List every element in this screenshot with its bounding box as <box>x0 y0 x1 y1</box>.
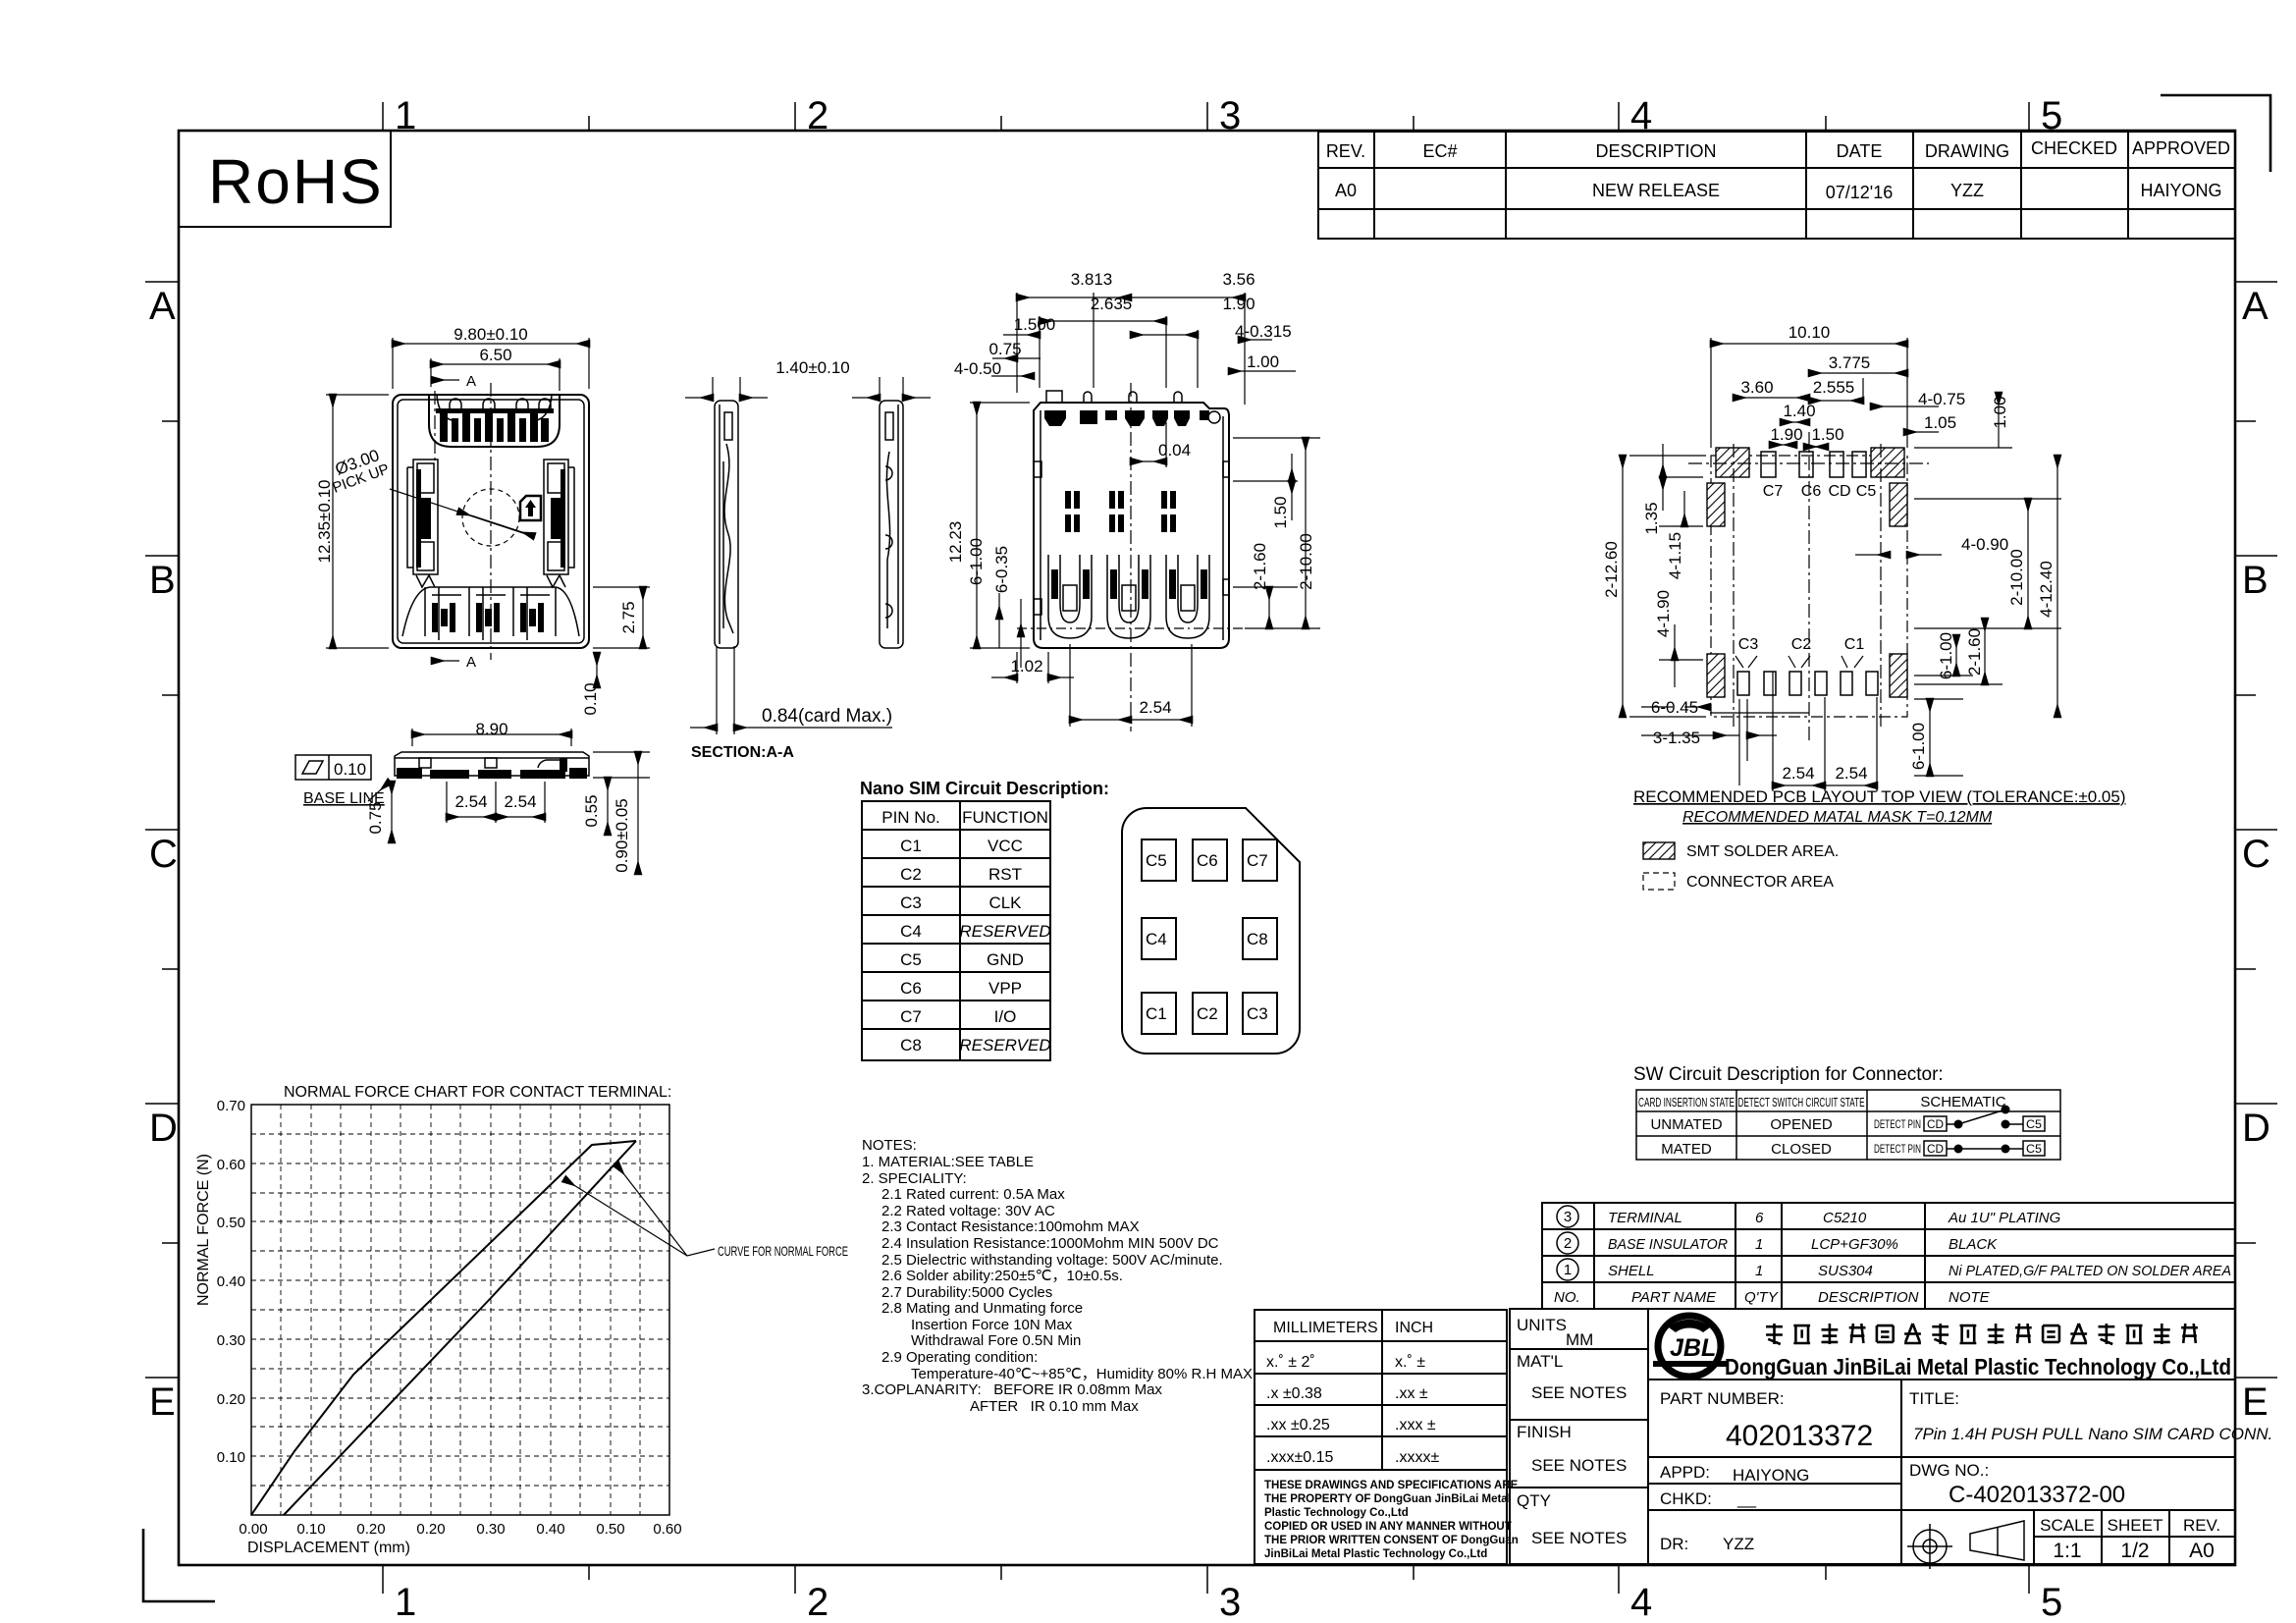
svg-text:1.00: 1.00 <box>1247 352 1279 371</box>
SIM card pad layout <box>1122 808 1300 1054</box>
svg-text:0.50: 0.50 <box>217 1215 245 1231</box>
svg-text:DISPLACEMENT (mm): DISPLACEMENT (mm) <box>247 1540 410 1556</box>
svg-text:C1: C1 <box>1146 1004 1167 1023</box>
sheet border frame <box>179 131 2235 1565</box>
RoHS box <box>179 131 391 227</box>
svg-text:C: C <box>149 833 178 876</box>
svg-text:6-1.00: 6-1.00 <box>1909 723 1928 770</box>
svg-text:0.10: 0.10 <box>217 1449 245 1466</box>
svg-text:E: E <box>149 1380 176 1424</box>
svg-text:1: 1 <box>395 1581 416 1623</box>
svg-text:0.20: 0.20 <box>217 1391 245 1408</box>
svg-text:APPROVED: APPROVED <box>2132 138 2230 158</box>
svg-text:2.1 Rated current: 0.5A Ma: 2.1 Rated current: 0.5A Max <box>881 1186 1065 1203</box>
switch schematic closed <box>1874 1141 2045 1156</box>
legend <box>1643 842 1675 859</box>
front view dims <box>392 729 650 874</box>
svg-text:C2: C2 <box>1197 1004 1218 1023</box>
svg-text:2.8 Mating and Unmating fo: 2.8 Mating and Unmating force <box>881 1300 1083 1317</box>
svg-text:1.90: 1.90 <box>1222 295 1255 313</box>
svg-text:6-1.00: 6-1.00 <box>967 538 986 585</box>
chart frame <box>251 1105 669 1515</box>
svg-text:3: 3 <box>1564 1209 1572 1225</box>
centerlines view3 <box>1130 383 1132 731</box>
svg-text:2.75: 2.75 <box>619 601 638 633</box>
svg-text:EC#: EC# <box>1422 141 1457 161</box>
svg-text:0.90±0.05: 0.90±0.05 <box>613 798 631 873</box>
svg-text:JinBiLai Metal Plastic Technol: JinBiLai Metal Plastic Technology Co.,Lt… <box>1264 1548 1487 1560</box>
svg-text:C4: C4 <box>1146 930 1167 948</box>
svg-text:APPD:: APPD: <box>1660 1463 1710 1482</box>
svg-text:0.40: 0.40 <box>536 1521 564 1538</box>
bottom contact slots <box>1048 555 1209 638</box>
svg-text:INCH: INCH <box>1395 1320 1433 1336</box>
svg-text:1: 1 <box>1755 1236 1763 1253</box>
svg-text:C6: C6 <box>1801 483 1822 500</box>
svg-text:0.55: 0.55 <box>582 794 601 827</box>
bottom contact area of top view <box>402 587 579 640</box>
svg-text:YZZ: YZZ <box>1950 181 1984 200</box>
top contact row black <box>1044 410 1209 426</box>
svg-text:RECOMMENDED PCB LAYOUT TOP: RECOMMENDED PCB LAYOUT TOP VIEW (TOLERAN… <box>1633 787 2126 806</box>
svg-text:1/2: 1/2 <box>2120 1540 2149 1562</box>
svg-text:UNITS: UNITS <box>1517 1316 1567 1334</box>
svg-text:SMT SOLDER AREA.: SMT SOLDER AREA. <box>1686 843 1839 860</box>
svg-text:C7: C7 <box>1247 851 1268 870</box>
svg-text:MATED: MATED <box>1661 1141 1712 1158</box>
svg-text:Withdrawal Fore 0.5N Min: Withdrawal Fore 0.5N Min <box>911 1332 1081 1349</box>
top view body outline <box>393 395 589 648</box>
svg-text:NORMAL FORCE (N): NORMAL FORCE (N) <box>195 1154 212 1306</box>
svg-text:3.775: 3.775 <box>1829 353 1871 372</box>
svg-text:0.75: 0.75 <box>988 340 1021 358</box>
svg-text:A0: A0 <box>2189 1540 2215 1562</box>
section profile right <box>880 401 903 648</box>
force curves <box>251 1141 636 1515</box>
company name Chinese (pseudo glyphs) <box>1766 1324 2198 1344</box>
svg-text:C3: C3 <box>900 893 922 912</box>
svg-text:4-0.315: 4-0.315 <box>1235 322 1292 341</box>
svg-text:C1: C1 <box>1844 636 1865 653</box>
svg-text:1: 1 <box>1564 1262 1572 1278</box>
svg-text:CARD INSERTION STATE: CARD INSERTION STATE <box>1638 1095 1735 1109</box>
svg-text:CURVE FOR NORMAL FORCE: CURVE FOR NORMAL FORCE <box>718 1243 848 1259</box>
svg-text:Temperature-40℃~+85℃，Humidity: Temperature-40℃~+85℃，Humidity 80% R.H MA… <box>911 1366 1253 1382</box>
svg-text:VCC: VCC <box>988 837 1023 855</box>
svg-text:1.500: 1.500 <box>1014 315 1056 334</box>
svg-text:12.35±0.10: 12.35±0.10 <box>315 480 334 564</box>
notes <box>862 1137 1253 1415</box>
svg-text:C: C <box>2242 833 2270 876</box>
svg-text:CD: CD <box>1927 1142 1944 1156</box>
svg-text:1.02: 1.02 <box>1010 657 1042 676</box>
svg-text:7Pin 1.4H PUSH PULL Nano: 7Pin 1.4H PUSH PULL Nano SIM CARD CONN. <box>1913 1425 2272 1443</box>
svg-text:0.70: 0.70 <box>217 1098 245 1114</box>
svg-text:2.555: 2.555 <box>1813 378 1855 397</box>
svg-text:.xx ±: .xx ± <box>1395 1385 1428 1402</box>
svg-text:THESE DRAWINGS AND SPECIFICATI: THESE DRAWINGS AND SPECIFICATIONS ARE <box>1264 1480 1519 1491</box>
svg-text:2: 2 <box>807 94 828 137</box>
svg-text:SCALE: SCALE <box>2040 1516 2095 1535</box>
svg-text:COPIED OR USED IN ANY MANNER W: COPIED OR USED IN ANY MANNER WITHOUT <box>1264 1521 1512 1533</box>
svg-text:DESCRIPTION: DESCRIPTION <box>1595 141 1716 161</box>
svg-text:C2: C2 <box>900 865 922 884</box>
svg-text:UNMATED: UNMATED <box>1650 1116 1722 1133</box>
svg-text:3.COPLANARITY: BEFORE IR 0: 3.COPLANARITY: BEFORE IR 0.08mm Max <box>862 1381 1162 1398</box>
svg-text:4-12.40: 4-12.40 <box>2037 561 2056 618</box>
svg-text:0.30: 0.30 <box>476 1521 505 1538</box>
svg-text:3: 3 <box>1219 1581 1241 1623</box>
svg-text:2-12.60: 2-12.60 <box>1602 541 1621 598</box>
svg-text:C7: C7 <box>900 1007 922 1026</box>
material table <box>1542 1203 2235 1309</box>
svg-text:GND: GND <box>987 950 1024 969</box>
svg-text:A: A <box>466 373 476 390</box>
svg-text:RST: RST <box>988 865 1022 884</box>
svg-text:3-1.35: 3-1.35 <box>1653 729 1700 747</box>
sim card icon <box>520 496 541 520</box>
zone ticks+labels left <box>145 282 179 1378</box>
svg-text:C3: C3 <box>1738 636 1759 653</box>
svg-text:2.5 Dielectric withstanding: 2.5 Dielectric withstanding voltage: 500… <box>881 1252 1223 1269</box>
svg-text:B: B <box>149 559 176 602</box>
pcb bottom small pads <box>1737 672 1878 695</box>
svg-text:0.30: 0.30 <box>217 1332 245 1349</box>
svg-text:0.20: 0.20 <box>356 1521 385 1538</box>
svg-text:RECOMMENDED MATAL MASK T=0.: RECOMMENDED MATAL MASK T=0.12MM <box>1682 809 1993 826</box>
svg-text:x.˚ ± 2˚: x.˚ ± 2˚ <box>1266 1354 1315 1371</box>
left edge notches <box>1034 461 1041 477</box>
svg-text:0.00: 0.00 <box>239 1521 267 1538</box>
svg-text:RESERVED: RESERVED <box>959 922 1050 941</box>
svg-text:VPP: VPP <box>988 979 1022 998</box>
svg-text:HAIYONG: HAIYONG <box>2140 181 2221 200</box>
svg-text:C6: C6 <box>900 979 922 998</box>
svg-text:A: A <box>149 285 176 328</box>
top edge tabs <box>1046 391 1062 403</box>
svg-text:3: 3 <box>1219 94 1241 137</box>
svg-text:.xxx±0.15: .xxx±0.15 <box>1266 1449 1333 1466</box>
chart x labels <box>239 1521 681 1538</box>
pcb centerlines <box>1808 432 1810 741</box>
svg-text:3.60: 3.60 <box>1740 378 1773 397</box>
svg-text:1.40±0.10: 1.40±0.10 <box>775 358 850 377</box>
svg-text:2.2 Rated voltage: 30V AC: 2.2 Rated voltage: 30V AC <box>881 1203 1055 1219</box>
svg-text:1: 1 <box>395 94 416 137</box>
svg-text:Insertion Force 10N Max: Insertion Force 10N Max <box>911 1317 1073 1333</box>
dims of view 1 <box>326 338 650 687</box>
svg-text:CD: CD <box>1927 1117 1944 1131</box>
svg-text:C5: C5 <box>2026 1117 2042 1131</box>
tolerance table <box>1255 1310 1507 1564</box>
svg-text:0.60: 0.60 <box>653 1521 681 1538</box>
svg-text:C7: C7 <box>1763 483 1784 500</box>
svg-text:2.54: 2.54 <box>1139 698 1171 717</box>
svg-text:SEE NOTES: SEE NOTES <box>1531 1529 1627 1547</box>
svg-text:REV.: REV. <box>2183 1516 2220 1535</box>
company logo <box>1653 1316 1727 1377</box>
chart y labels <box>217 1098 245 1466</box>
svg-text:0.60: 0.60 <box>217 1157 245 1173</box>
svg-text:402013372: 402013372 <box>1726 1420 1873 1452</box>
centerlines <box>490 383 492 660</box>
svg-text:C6: C6 <box>1197 851 1218 870</box>
view3 right dims <box>1233 438 1320 628</box>
svg-text:1.35: 1.35 <box>1642 502 1661 534</box>
svg-text:C5: C5 <box>1856 483 1877 500</box>
svg-text:BASE INSULATOR: BASE INSULATOR <box>1608 1236 1728 1253</box>
svg-text:2-1.60: 2-1.60 <box>1965 628 1984 676</box>
title block <box>1510 1309 2235 1564</box>
pcb dims top <box>1711 338 2012 448</box>
svg-text:DATE: DATE <box>1837 141 1883 161</box>
svg-text:SEE NOTES: SEE NOTES <box>1531 1456 1627 1475</box>
svg-text:SUS304: SUS304 <box>1818 1263 1873 1279</box>
svg-text:C-402013372-00: C-402013372-00 <box>1949 1482 2125 1508</box>
svg-text:1: 1 <box>1755 1263 1763 1279</box>
svg-text:12.23: 12.23 <box>946 521 965 564</box>
svg-text:2-10.00: 2-10.00 <box>2007 549 2026 606</box>
svg-text:Ni PLATED,G/F PALTED ON SO: Ni PLATED,G/F PALTED ON SOLDER AREA <box>1949 1263 2231 1279</box>
svg-text:PART NAME: PART NAME <box>1631 1289 1717 1306</box>
view3 bottom dims <box>991 644 1192 727</box>
svg-text:REV.: REV. <box>1326 141 1365 161</box>
svg-text:DETECT PIN: DETECT PIN <box>1874 1117 1921 1131</box>
svg-text:0.10: 0.10 <box>334 760 366 779</box>
svg-text:0.10: 0.10 <box>581 682 600 715</box>
svg-text:Plastic Technology Co.,Ltd: Plastic Technology Co.,Ltd <box>1264 1507 1409 1519</box>
svg-text:2. SPECIALITY:: 2. SPECIALITY: <box>862 1170 967 1187</box>
zone ticks+labels right <box>2235 282 2277 1378</box>
svg-text:x.˚ ±: x.˚ ± <box>1395 1354 1425 1371</box>
svg-text:1.50: 1.50 <box>1271 496 1290 528</box>
svg-text:2.6 Solder ability:250±5℃，10: 2.6 Solder ability:250±5℃，10±0.5s. <box>881 1268 1123 1284</box>
svg-text:1.00: 1.00 <box>1991 396 2009 428</box>
svg-text:NOTE: NOTE <box>1949 1289 1991 1306</box>
svg-text:JBL: JBL <box>1670 1334 1716 1362</box>
svg-text:C1: C1 <box>900 837 922 855</box>
svg-text:C3: C3 <box>1247 1004 1268 1023</box>
switch schematic open <box>1874 1106 2045 1132</box>
svg-text:THE PRIOR WRITTEN CONSENT OF D: THE PRIOR WRITTEN CONSENT OF DongGuan <box>1264 1535 1519 1546</box>
top contact cavity <box>429 396 560 447</box>
svg-text:2.635: 2.635 <box>1091 295 1133 313</box>
svg-text:4-1.90: 4-1.90 <box>1654 590 1673 637</box>
svg-text:1. MATERIAL:SEE TABLE: 1. MATERIAL:SEE TABLE <box>862 1154 1034 1170</box>
svg-text:A: A <box>2242 285 2269 328</box>
svg-text:D: D <box>2242 1107 2270 1150</box>
zone ticks top <box>383 102 2029 131</box>
svg-text:CHECKED: CHECKED <box>2031 138 2117 158</box>
svg-text:0.84(card Max.): 0.84(card Max.) <box>762 706 892 727</box>
svg-text:6.50: 6.50 <box>479 346 511 364</box>
middle small contacts <box>1065 491 1176 532</box>
svg-text:C5: C5 <box>2026 1142 2042 1156</box>
center dashed circle <box>462 489 519 546</box>
svg-text:.x ±0.38: .x ±0.38 <box>1266 1385 1322 1402</box>
svg-text:SHEET: SHEET <box>2108 1516 2163 1535</box>
svg-text:BLACK: BLACK <box>1949 1236 1998 1253</box>
svg-text:DR:: DR: <box>1660 1535 1688 1553</box>
front view body <box>395 752 589 776</box>
svg-text:Nano SIM Circuit Descriptio: Nano SIM Circuit Description: <box>860 779 1109 798</box>
svg-text:NO.: NO. <box>1554 1289 1580 1306</box>
svg-text:MAT'L: MAT'L <box>1517 1352 1563 1371</box>
svg-text:C5: C5 <box>900 950 922 969</box>
svg-text:1.05: 1.05 <box>1924 413 1956 432</box>
svg-text:0.10: 0.10 <box>296 1521 325 1538</box>
bottom view body outline <box>1034 403 1229 648</box>
svg-text:07/12'16: 07/12'16 <box>1826 183 1894 202</box>
curve leader <box>564 1179 715 1256</box>
svg-text:C2: C2 <box>1791 636 1812 653</box>
svg-text:PART NUMBER:: PART NUMBER: <box>1660 1389 1785 1408</box>
section dims <box>685 377 931 734</box>
svg-text:0.50: 0.50 <box>596 1521 624 1538</box>
svg-text:1.50: 1.50 <box>1811 425 1843 444</box>
svg-text:4: 4 <box>1630 1581 1652 1623</box>
svg-text:6-0.35: 6-0.35 <box>992 546 1011 593</box>
svg-text:SHELL: SHELL <box>1608 1263 1655 1279</box>
svg-text:NEW RELEASE: NEW RELEASE <box>1592 181 1720 200</box>
svg-text:SECTION:A-A: SECTION:A-A <box>691 744 794 761</box>
zone ticks bottom <box>383 1565 2029 1594</box>
svg-text:DETECT SWITCH CIRCUIT STATE: DETECT SWITCH CIRCUIT STATE <box>1738 1095 1865 1109</box>
svg-text:2.54: 2.54 <box>1835 764 1867 783</box>
svg-text:2.54: 2.54 <box>1782 764 1814 783</box>
corner trim mark bottom-left <box>143 1529 215 1601</box>
right spring arm <box>544 460 574 587</box>
svg-text:PIN No.: PIN No. <box>881 808 940 827</box>
svg-text:3.813: 3.813 <box>1071 270 1113 289</box>
svg-text:6-0.45: 6-0.45 <box>1651 698 1698 717</box>
view3 left dims <box>970 403 1030 668</box>
pcb outline dash-dot <box>1711 456 1907 717</box>
pcb dims bottom <box>1641 672 1963 791</box>
svg-text:C4: C4 <box>900 922 922 941</box>
svg-text:2-1.60: 2-1.60 <box>1251 543 1269 590</box>
svg-text:CHKD:: CHKD: <box>1660 1489 1712 1508</box>
svg-text:FUNCTION: FUNCTION <box>962 808 1048 827</box>
svg-text:Au 1U" PLATING: Au 1U" PLATING <box>1948 1210 2061 1226</box>
svg-text:YZZ: YZZ <box>1723 1535 1754 1553</box>
svg-text:MILLIMETERS: MILLIMETERS <box>1273 1320 1378 1336</box>
svg-text:CD: CD <box>1828 483 1850 500</box>
svg-text:E: E <box>2242 1380 2269 1424</box>
svg-text:.xxx ±: .xxx ± <box>1395 1417 1436 1434</box>
svg-text:FINISH: FINISH <box>1517 1423 1572 1441</box>
svg-text:NOTES:: NOTES: <box>862 1137 917 1154</box>
svg-text:CLOSED: CLOSED <box>1771 1141 1832 1158</box>
zone labels top <box>395 94 2062 137</box>
svg-text:SEE NOTES: SEE NOTES <box>1531 1383 1627 1402</box>
svg-text:1.90: 1.90 <box>1770 425 1802 444</box>
section profile left <box>715 401 738 648</box>
svg-text:.xxxx±: .xxxx± <box>1395 1449 1439 1466</box>
svg-text:5: 5 <box>2041 1581 2062 1623</box>
svg-text:2.7 Durability:5000 Cycles: 2.7 Durability:5000 Cycles <box>881 1284 1052 1301</box>
svg-text:3.56: 3.56 <box>1222 270 1255 289</box>
svg-text:1.40: 1.40 <box>1783 402 1815 420</box>
svg-text:C8: C8 <box>1247 930 1268 948</box>
svg-text:CONNECTOR AREA: CONNECTOR AREA <box>1686 874 1834 891</box>
top cavity black contacts <box>436 408 554 442</box>
svg-text:OPENED: OPENED <box>1770 1116 1833 1133</box>
svg-text:9.80±0.10: 9.80±0.10 <box>454 325 528 344</box>
svg-text:LCP+GF30%: LCP+GF30% <box>1811 1236 1898 1253</box>
pcb pads hatched <box>1707 448 1907 697</box>
svg-text:2.9 Operating condition:: 2.9 Operating condition: <box>881 1349 1038 1366</box>
svg-text:6-1.00: 6-1.00 <box>1937 632 1955 679</box>
svg-text:D: D <box>149 1107 178 1150</box>
svg-text:DESCRIPTION: DESCRIPTION <box>1818 1289 1919 1306</box>
top contact tabs <box>450 399 551 410</box>
svg-text:TERMINAL: TERMINAL <box>1608 1210 1682 1226</box>
svg-text:QTY: QTY <box>1517 1491 1551 1510</box>
svg-text:C5: C5 <box>1146 851 1167 870</box>
svg-text:TITLE:: TITLE: <box>1909 1389 1959 1408</box>
pcb dims right <box>1855 456 2061 717</box>
svg-text:RoHS: RoHS <box>208 146 384 217</box>
0.04 dim <box>1131 422 1166 467</box>
svg-text:I/O: I/O <box>994 1007 1017 1026</box>
svg-text:2.54: 2.54 <box>454 792 487 811</box>
svg-text:SW Circuit Description for: SW Circuit Description for Connector: <box>1633 1064 1944 1085</box>
svg-text:THE PROPERTY OF DongGuan JinBi: THE PROPERTY OF DongGuan JinBiLai Metal <box>1264 1493 1511 1505</box>
svg-text:1:1: 1:1 <box>2053 1540 2081 1562</box>
svg-text:2: 2 <box>1564 1235 1572 1252</box>
svg-text:DWG NO.:: DWG NO.: <box>1909 1461 1989 1480</box>
svg-text:HAIYONG: HAIYONG <box>1733 1466 1809 1485</box>
svg-text:Q'TY: Q'TY <box>1744 1289 1779 1306</box>
svg-text:RESERVED: RESERVED <box>959 1036 1050 1055</box>
svg-text:CLK: CLK <box>988 893 1022 912</box>
svg-text:DETECT PIN: DETECT PIN <box>1874 1142 1921 1156</box>
svg-text:0.40: 0.40 <box>217 1273 245 1290</box>
third angle projection symbol <box>1907 1521 2024 1569</box>
svg-text:0.75: 0.75 <box>366 801 385 834</box>
svg-text:DRAWING: DRAWING <box>1925 141 2009 161</box>
view3 top dims <box>991 293 1296 405</box>
svg-text:2.4 Insulation Resistance:10: 2.4 Insulation Resistance:1000Mohm MIN 5… <box>881 1235 1219 1252</box>
svg-text:MM: MM <box>1566 1330 1593 1349</box>
svg-text:A: A <box>466 654 476 671</box>
flatness box <box>295 755 371 780</box>
svg-text:4-0.75: 4-0.75 <box>1918 390 1965 408</box>
svg-text:2.54: 2.54 <box>504 792 536 811</box>
svg-text:4-1.15: 4-1.15 <box>1666 532 1684 579</box>
zone labels bottom <box>395 1581 2062 1623</box>
svg-text:2.3 Contact Resistance:100mo: 2.3 Contact Resistance:100mohm MAX <box>881 1218 1140 1235</box>
svg-text:NORMAL FORCE CHART FOR CON: NORMAL FORCE CHART FOR CONTACT TERMINAL: <box>284 1084 671 1101</box>
left spring arm <box>407 460 438 587</box>
corner trim mark top-right <box>2161 95 2270 172</box>
svg-text:__: __ <box>1736 1489 1756 1508</box>
svg-text:6: 6 <box>1755 1210 1764 1226</box>
svg-text:C8: C8 <box>900 1036 922 1055</box>
svg-text:.xx ±0.25: .xx ±0.25 <box>1266 1417 1330 1434</box>
svg-text:A0: A0 <box>1335 181 1357 200</box>
pcb dims left <box>1623 444 1706 717</box>
svg-text:AFTER IR 0.10 mm Max: AFTER IR 0.10 mm Max <box>970 1398 1139 1415</box>
svg-text:SCHEMATIC: SCHEMATIC <box>1920 1094 2005 1110</box>
svg-text:10.10: 10.10 <box>1789 323 1831 342</box>
revision table <box>1318 132 2235 239</box>
svg-text:2: 2 <box>807 1581 828 1623</box>
svg-text:0.04: 0.04 <box>1158 441 1191 460</box>
svg-text:4-0.50: 4-0.50 <box>954 359 1001 378</box>
svg-text:DongGuan JinBiLai Metal Pla: DongGuan JinBiLai Metal Plastic Technolo… <box>1725 1354 2231 1380</box>
